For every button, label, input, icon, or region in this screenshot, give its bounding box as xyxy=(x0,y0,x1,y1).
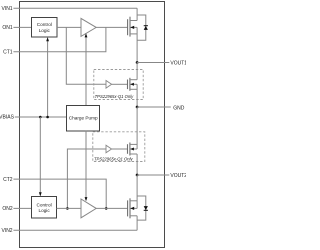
pin CT1 xyxy=(3,50,13,56)
wire ON2 to control logic U2 xyxy=(13,207,31,209)
node VBIAS junction 1 xyxy=(39,116,42,119)
wire gate line channel 1 xyxy=(96,26,127,28)
svg-text:Logic: Logic xyxy=(39,28,51,33)
svg-text:ON1: ON1 xyxy=(2,25,13,31)
pin VBIAS xyxy=(0,115,15,121)
pin VOUT2 xyxy=(137,173,187,179)
wire GND to Q4 source xyxy=(136,107,138,149)
node VOUT2 junction xyxy=(136,174,139,177)
IC boundary box xyxy=(20,2,165,248)
wire CT1 to gate node xyxy=(13,27,106,51)
svg-text:VOUT1: VOUT1 xyxy=(170,60,186,66)
transistor Q3 discharge FET channel 1 xyxy=(128,78,138,91)
driver amp A2 xyxy=(81,199,96,218)
wire charge pump to driver A2 arrow xyxy=(85,131,88,201)
pin GND xyxy=(137,105,185,111)
wire discharge tap channel 1 xyxy=(66,27,106,84)
svg-text:Control: Control xyxy=(37,22,52,27)
wire VIN1 rail xyxy=(13,7,137,9)
svg-text:Charge Pump: Charge Pump xyxy=(69,116,98,121)
node GND junction xyxy=(136,106,139,109)
control logic U1 xyxy=(32,18,58,38)
wire VOUT1 to Q3 drain xyxy=(136,63,138,80)
wire Q4 drain to VOUT2 xyxy=(136,154,138,175)
pin VIN1 xyxy=(1,6,12,12)
wire VIN2 rail xyxy=(13,229,137,231)
driver amp A1 xyxy=(81,18,96,36)
wire VBIAS arrow into control logic U2 xyxy=(39,117,42,197)
pin VIN2 xyxy=(1,228,12,234)
dashed option box channel 1 xyxy=(94,70,143,100)
svg-text:TPS22965x-Q1 Only: TPS22965x-Q1 Only xyxy=(94,156,134,161)
wire ON1 to control logic xyxy=(13,26,31,28)
wire gate line channel 2 xyxy=(96,207,127,209)
pin ON2 xyxy=(2,206,13,212)
svg-text:VOUT2: VOUT2 xyxy=(170,173,186,179)
wire Q3 source to GND xyxy=(136,84,138,107)
pin ON1 xyxy=(2,25,13,31)
wire VIN1 to Q1 drain xyxy=(136,8,138,20)
node discharge tap junction channel 2 xyxy=(66,207,69,210)
wire Q2 drain to VIN2 rail xyxy=(136,216,138,231)
svg-text:VBIAS: VBIAS xyxy=(0,115,15,121)
buffer amp A3 discharge channel 1 xyxy=(106,81,128,89)
diode D2 body diode xyxy=(137,196,148,220)
svg-text:Control: Control xyxy=(37,202,52,207)
control logic U2 xyxy=(32,197,57,219)
wire discharge tap channel 2 xyxy=(67,149,106,208)
pin VOUT1 xyxy=(137,60,187,66)
charge pump U3 xyxy=(67,106,100,132)
svg-text:GND: GND xyxy=(173,105,185,111)
wire CT2 to gate node channel 2 xyxy=(13,179,106,208)
buffer amp A4 discharge channel 2 xyxy=(106,145,128,153)
wire control logic U2 to driver A2 xyxy=(57,207,82,209)
wire VBIAS arrow into control logic U1 xyxy=(46,37,49,117)
node CT2 gate junction xyxy=(105,207,108,210)
diode D1 body diode xyxy=(137,15,148,40)
wire control logic to driver xyxy=(57,26,81,28)
transistor Q2 pass FET channel 2 xyxy=(128,198,138,218)
svg-text:TPS22965x-Q1 Only: TPS22965x-Q1 Only xyxy=(95,94,135,99)
svg-text:VIN2: VIN2 xyxy=(1,228,12,234)
svg-text:ON2: ON2 xyxy=(2,206,13,212)
dashed option box channel 2 xyxy=(93,132,145,162)
node VBIAS junction 2 xyxy=(46,116,49,119)
svg-text:CT1: CT1 xyxy=(3,50,13,56)
wire charge pump to driver A1 arrow xyxy=(85,33,88,105)
svg-text:CT2: CT2 xyxy=(3,177,13,183)
pin CT2 xyxy=(3,177,13,183)
wire VBIAS to charge pump xyxy=(15,116,67,118)
transistor Q1 pass FET channel 1 xyxy=(128,17,138,37)
wire Q1 body source tie down to VOUT1 xyxy=(136,27,138,62)
svg-text:VIN1: VIN1 xyxy=(1,6,12,12)
transistor Q4 discharge FET channel 2 xyxy=(128,143,138,156)
node VOUT1 junction xyxy=(136,61,139,64)
wire VOUT2 to Q2 source body tie xyxy=(136,175,138,208)
svg-text:Logic: Logic xyxy=(38,208,50,213)
